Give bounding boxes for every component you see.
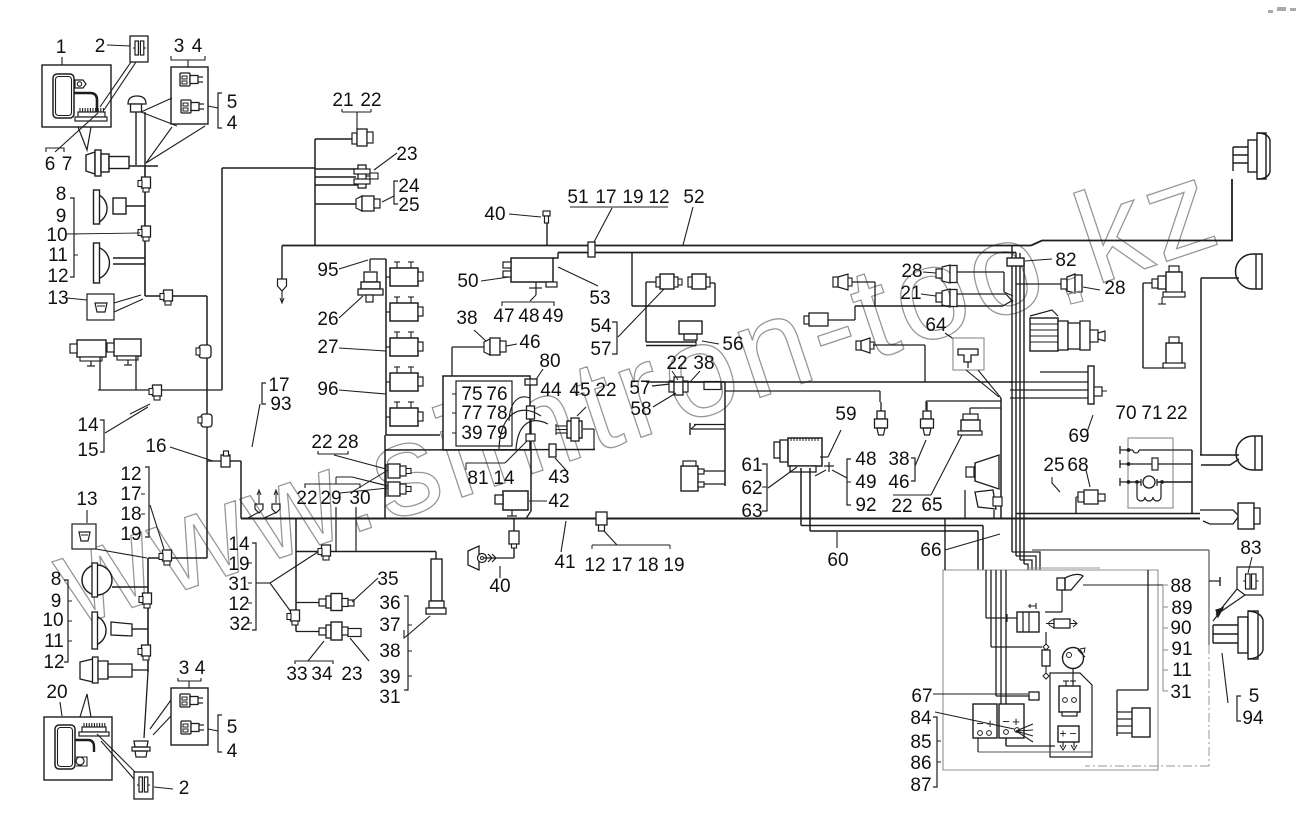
svg-text:68: 68 [1067,455,1088,476]
bracket 8-12 [70,198,74,277]
tick 75 [452,393,456,395]
bus y306 [855,305,1003,307]
svg-text:4: 4 [195,658,206,679]
outer gray box [943,570,1158,770]
horn 6/7 [86,152,95,174]
wire y168 [222,167,315,169]
horn 40 [468,546,479,570]
battery 2 latch [76,757,84,765]
clamp x296 [291,610,300,621]
svg-text:38: 38 [693,353,714,374]
bracket 88-31 [1162,585,1164,691]
wire 69a [1143,282,1152,284]
svg-text:57: 57 [629,378,650,399]
svg-text:22: 22 [1166,403,1187,424]
bracket 33 34 [295,661,333,664]
dynamo in box [1007,617,1017,619]
svg-text:47: 47 [493,306,514,327]
callout lines to 2b [97,734,140,777]
connector callout box 2 [130,36,148,62]
svg-text:17: 17 [611,555,632,576]
headlamp top right [1233,146,1250,148]
wire lamp down [1061,590,1063,612]
svg-text:38: 38 [456,308,477,329]
coil battery in box [1058,726,1079,742]
callout fork [256,582,270,584]
headlight low 2 [96,616,106,645]
battery cell B [999,704,1024,738]
inner box around coil [1050,673,1092,757]
wire x296 [295,519,297,632]
svg-text:21: 21 [332,90,353,111]
wire trunk lower [147,558,149,672]
wire 40a to bus [546,223,548,246]
svg-text:51: 51 [567,187,588,208]
bracket 17 93 [262,383,266,404]
clamp A [322,545,331,556]
horn right [975,455,999,489]
headlamp right 3 [1236,436,1262,470]
wires into box [944,519,946,570]
relay box 2 [171,688,208,745]
cluster bus right [1191,450,1193,514]
svg-text:62: 62 [741,478,762,499]
callout 26 [339,296,363,318]
coil B [692,274,706,289]
svg-text:11: 11 [1172,660,1192,681]
bracket 61-63 [762,464,767,511]
svg-text:2: 2 [179,778,190,799]
coil A [660,274,674,289]
bus line 1 right step [1031,179,1232,246]
connector 43a [527,406,535,419]
wire right bus x222 [221,168,223,390]
battery 1 frame [42,65,111,127]
bus pair corners [982,526,984,571]
callout 41 [561,521,566,552]
flasher 23 [315,168,359,170]
svg-text:22: 22 [891,496,912,517]
work lamp right [975,490,996,509]
svg-text:50: 50 [457,271,478,292]
bundle bends [1012,552,1040,570]
svg-text:28: 28 [1104,278,1125,299]
callout 28a [923,272,936,273]
callout 21b [921,294,936,296]
cluster pins [1119,446,1121,454]
bracket 6 7 [46,148,64,152]
relay column item 1 [390,268,418,286]
glow relay 69b [1169,337,1179,343]
plug 33/34 [296,631,320,633]
wire pair to 56 [646,341,696,343]
svg-text:91: 91 [1171,639,1192,660]
callout 33 34 [308,641,324,661]
battery 1 pointer notch [78,127,91,150]
callout 95 [339,260,368,269]
svg-text:5: 5 [1249,686,1260,707]
horn sensor mid [833,277,838,287]
socket plug [134,741,148,747]
callout 66 [945,534,1000,550]
callout wires to plugs [352,470,388,492]
svg-text:57: 57 [590,339,611,360]
svg-text:83: 83 [1240,538,1261,559]
clamp connector [142,177,151,188]
bracket 8-12 low [64,580,68,662]
svg-text:77: 77 [461,403,482,424]
wire x725 drop [724,382,726,486]
svg-text:46: 46 [888,472,909,493]
wire trunk down [144,166,146,296]
svg-text:12: 12 [648,187,669,208]
svg-text:59: 59 [835,404,856,425]
lamp wires right [1200,454,1239,456]
callout 27 [339,348,386,351]
svg-text:5: 5 [227,92,238,113]
ignition switch [556,425,567,427]
connector callout box 2b [134,772,153,799]
wire y284 [1016,283,1061,285]
callout 67 [933,693,1028,695]
wire bundle verticals [1011,246,1013,553]
tick 13b [86,510,88,523]
connector 28a [936,269,942,278]
callout 36 37 [409,616,430,634]
svg-text:25: 25 [398,195,419,216]
rear lamp connector [1238,503,1254,529]
connector 51/17/19/12 [588,242,595,257]
svg-text:17: 17 [595,187,616,208]
svg-text:19: 19 [228,554,249,575]
wire fuse left [451,347,453,376]
svg-text:43: 43 [548,467,569,488]
relay column bus [385,259,387,435]
battery 1 cable [74,93,97,112]
svg-text:17: 17 [120,484,141,505]
svg-text:40: 40 [484,204,505,225]
callout box 83 [1237,567,1263,595]
sensor 38/46 item [926,402,928,411]
svg-text:22: 22 [311,432,332,453]
tick 40b [499,566,501,578]
svg-text:53: 53 [589,288,610,309]
wire riser 93 [240,461,242,519]
battery 1 fuse strip [78,112,105,117]
bracket 48/49/92 [847,459,851,505]
callout 53 [558,267,598,286]
svg-text:56: 56 [722,334,743,355]
callout line to 6 7 [55,113,98,152]
svg-text:28: 28 [337,432,358,453]
svg-text:18: 18 [637,555,658,576]
svg-text:58: 58 [630,399,651,420]
curved harness wires [499,410,541,449]
callout 22 38 [672,371,678,380]
svg-text:13: 13 [47,288,68,309]
stop switch 61/62/63 [681,466,698,491]
callout 52 [683,207,693,245]
svg-text:10: 10 [42,610,63,631]
svg-text:38: 38 [888,449,909,470]
beacon box 13 [87,294,114,320]
svg-text:19: 19 [120,524,141,545]
bracket 14 15 [100,420,104,452]
connector 40a [509,214,541,217]
wire down x207 [206,296,208,416]
bracket 3b 4b [178,678,201,681]
svg-text:69: 69 [1068,426,1089,447]
svg-text:9: 9 [51,591,62,612]
starter 59 [774,442,780,458]
cluster motor row [1130,481,1141,483]
clamp connector 14/15a [164,290,173,301]
relay column item 4 [390,373,418,391]
svg-text:31: 31 [1170,682,1191,703]
underline 22 65 [893,494,931,496]
callout lines to 2 [100,62,131,107]
svg-text:61: 61 [741,455,762,476]
wire 80 [529,376,531,385]
svg-text:31: 31 [379,687,400,708]
connector 82 [1007,258,1024,266]
wire relays to bus [99,357,101,390]
cluster coil [1137,484,1161,501]
battery 2 cable [75,740,94,752]
callout 5 94 [1222,653,1228,703]
connector 80 [535,369,543,381]
bus line 1 [282,245,1031,247]
bracket 21 22 [342,109,371,112]
cap connector [128,96,146,104]
connector icon 3/4 [180,73,190,86]
callout 58 [653,393,676,407]
wire to plug [144,672,148,738]
svg-text:14: 14 [77,415,99,436]
bracket 12 17 18 19 [592,544,670,546]
assembly box A [1032,549,1209,551]
svg-text:10: 10 [46,225,67,246]
wires from starter [800,468,802,526]
svg-text:12: 12 [43,652,64,673]
callout 64 [945,333,958,342]
svg-text:22: 22 [595,380,616,401]
bottom dotted [978,751,1092,753]
svg-text:64: 64 [925,315,947,336]
marker lamp [80,659,93,682]
wire x207 tail [206,416,208,461]
svg-text:48: 48 [518,306,539,327]
headlight 8/9 [97,194,107,223]
svg-text:92: 92 [855,495,876,516]
svg-text:28: 28 [901,261,922,282]
svg-text:41: 41 [554,552,575,573]
svg-text:26: 26 [317,309,338,330]
svg-text:18: 18 [120,504,141,525]
wires mid box [1045,632,1047,644]
svg-text:25: 25 [1043,455,1064,476]
svg-text:65: 65 [921,495,942,516]
svg-text:19: 19 [663,555,684,576]
svg-text:85: 85 [910,732,931,753]
svg-text:27: 27 [317,337,338,358]
callout line 10 [67,233,140,234]
svg-text:34: 34 [311,664,333,685]
bracket 14-12 [252,543,256,630]
svg-text:1: 1 [56,37,67,58]
svg-text:20: 20 [46,682,67,703]
svg-text:17: 17 [268,375,289,396]
svg-text:4: 4 [227,741,238,762]
bracket 12-19 [145,467,149,537]
cluster row1 [1130,449,1133,451]
svg-text:49: 49 [855,472,876,493]
callout 50 [481,277,509,281]
double plug connector A [388,464,400,478]
beacon box 13b [72,524,96,549]
svg-text:+: + [1012,714,1020,729]
callout 88 [1083,584,1168,586]
middle box [385,449,595,452]
callout line 2 [107,45,131,46]
svg-text:46: 46 [519,332,540,353]
svg-text:52: 52 [683,187,704,208]
svg-text:86: 86 [910,753,931,774]
svg-text:12: 12 [584,555,605,576]
bracket 24 25 [394,181,398,204]
svg-text:33: 33 [286,664,307,685]
wire fan [1016,724,1033,731]
bracket 38 46 [911,458,915,481]
bus taper [1200,510,1239,524]
svg-text:15: 15 [77,440,98,461]
svg-text:14: 14 [228,534,250,555]
svg-text:75: 75 [461,384,482,405]
clamp mid trunk [143,593,152,604]
svg-text:3: 3 [174,36,185,57]
connector 21b [936,293,942,302]
dash dot inner line [1027,567,1100,569]
svg-text:76: 76 [486,384,507,405]
bracket 3 4 [171,56,205,60]
bracket 22 29 30 [305,484,360,488]
bus y382 [646,381,1013,383]
sensor 24/25 [315,203,356,205]
callout 35 [352,578,378,602]
oval connector [201,414,212,427]
connector 28b [1061,279,1067,289]
headlamp front view [82,565,112,595]
headlamp right 2 [1236,254,1263,289]
connector block right [1116,690,1118,736]
distributor box 64 [953,338,984,370]
headlight 11/12 [97,247,109,279]
bus1 left end plug [281,246,283,280]
bracket 5 94 [1237,696,1241,721]
svg-text:78: 78 [486,403,507,424]
cluster box [1128,438,1173,508]
wire drop x632 [631,253,633,307]
fuel tube 36/37 [431,559,442,601]
svg-text:8: 8 [51,569,62,590]
wire bundle in box [985,570,987,618]
svg-text:3: 3 [179,658,190,679]
connector bar 70/71/22 [1088,366,1094,404]
svg-text:22: 22 [296,488,317,509]
svg-text:11: 11 [44,631,64,652]
relay horn A [77,340,106,357]
relay 65 item [969,408,971,414]
svg-text:44: 44 [540,380,562,401]
headlamp bottom right [1213,608,1223,621]
svg-text:66: 66 [920,540,941,561]
svg-text:84: 84 [910,708,932,729]
tick 60 [836,532,838,548]
cylinder sensor [804,316,809,324]
svg-text:12: 12 [47,266,68,287]
wire sensor B [925,401,927,410]
svg-text:32: 32 [229,614,250,635]
battery cell A [973,704,997,738]
svg-text:12: 12 [120,464,141,485]
svg-text:89: 89 [1171,598,1192,619]
bracket 81 14 [466,462,505,464]
bus bottom upper line [1016,513,1200,515]
connector 41 [596,512,607,525]
bracket 5 4 [218,93,222,128]
battery 2 frame [44,717,112,780]
svg-text:+: + [1059,727,1066,741]
sender box 56 [679,321,702,334]
svg-text:60: 60 [827,550,848,571]
svg-text:8: 8 [56,184,67,205]
clamp low [142,645,151,656]
svg-text:36: 36 [379,593,400,614]
callout 13 lines [67,298,87,300]
battery 2 cell [55,725,75,769]
wire y551 [296,551,436,553]
svg-text:23: 23 [396,144,417,165]
battery 1 cell [53,74,74,118]
svg-text:90: 90 [1170,618,1191,639]
sensor 95 [364,272,377,282]
svg-text:7: 7 [62,154,73,175]
pin left of 83 box [1209,580,1220,582]
svg-text:12: 12 [228,594,249,615]
svg-text:95: 95 [317,260,338,281]
relay column item 2 [390,303,418,321]
resistor in box [1042,650,1050,666]
bus pair lower [801,525,983,527]
relay column item 5 [390,408,418,426]
svg-text:−: − [1069,727,1076,741]
sensor 21/22 [315,138,353,140]
svg-text:40: 40 [489,576,510,597]
callout 83 [1248,557,1252,573]
glow relay 69a [1152,279,1158,288]
fuse box inner [456,381,512,446]
relay horn B [114,339,141,356]
callout 56 [702,341,719,344]
svg-text:48: 48 [855,449,876,470]
svg-text:4: 4 [192,36,203,57]
junction x1001 [1000,398,1002,519]
svg-text:54: 54 [590,316,612,337]
svg-text:49: 49 [542,306,563,327]
svg-text:31: 31 [228,574,249,595]
svg-text:23: 23 [341,664,362,685]
horn sensor 2 [856,341,861,350]
